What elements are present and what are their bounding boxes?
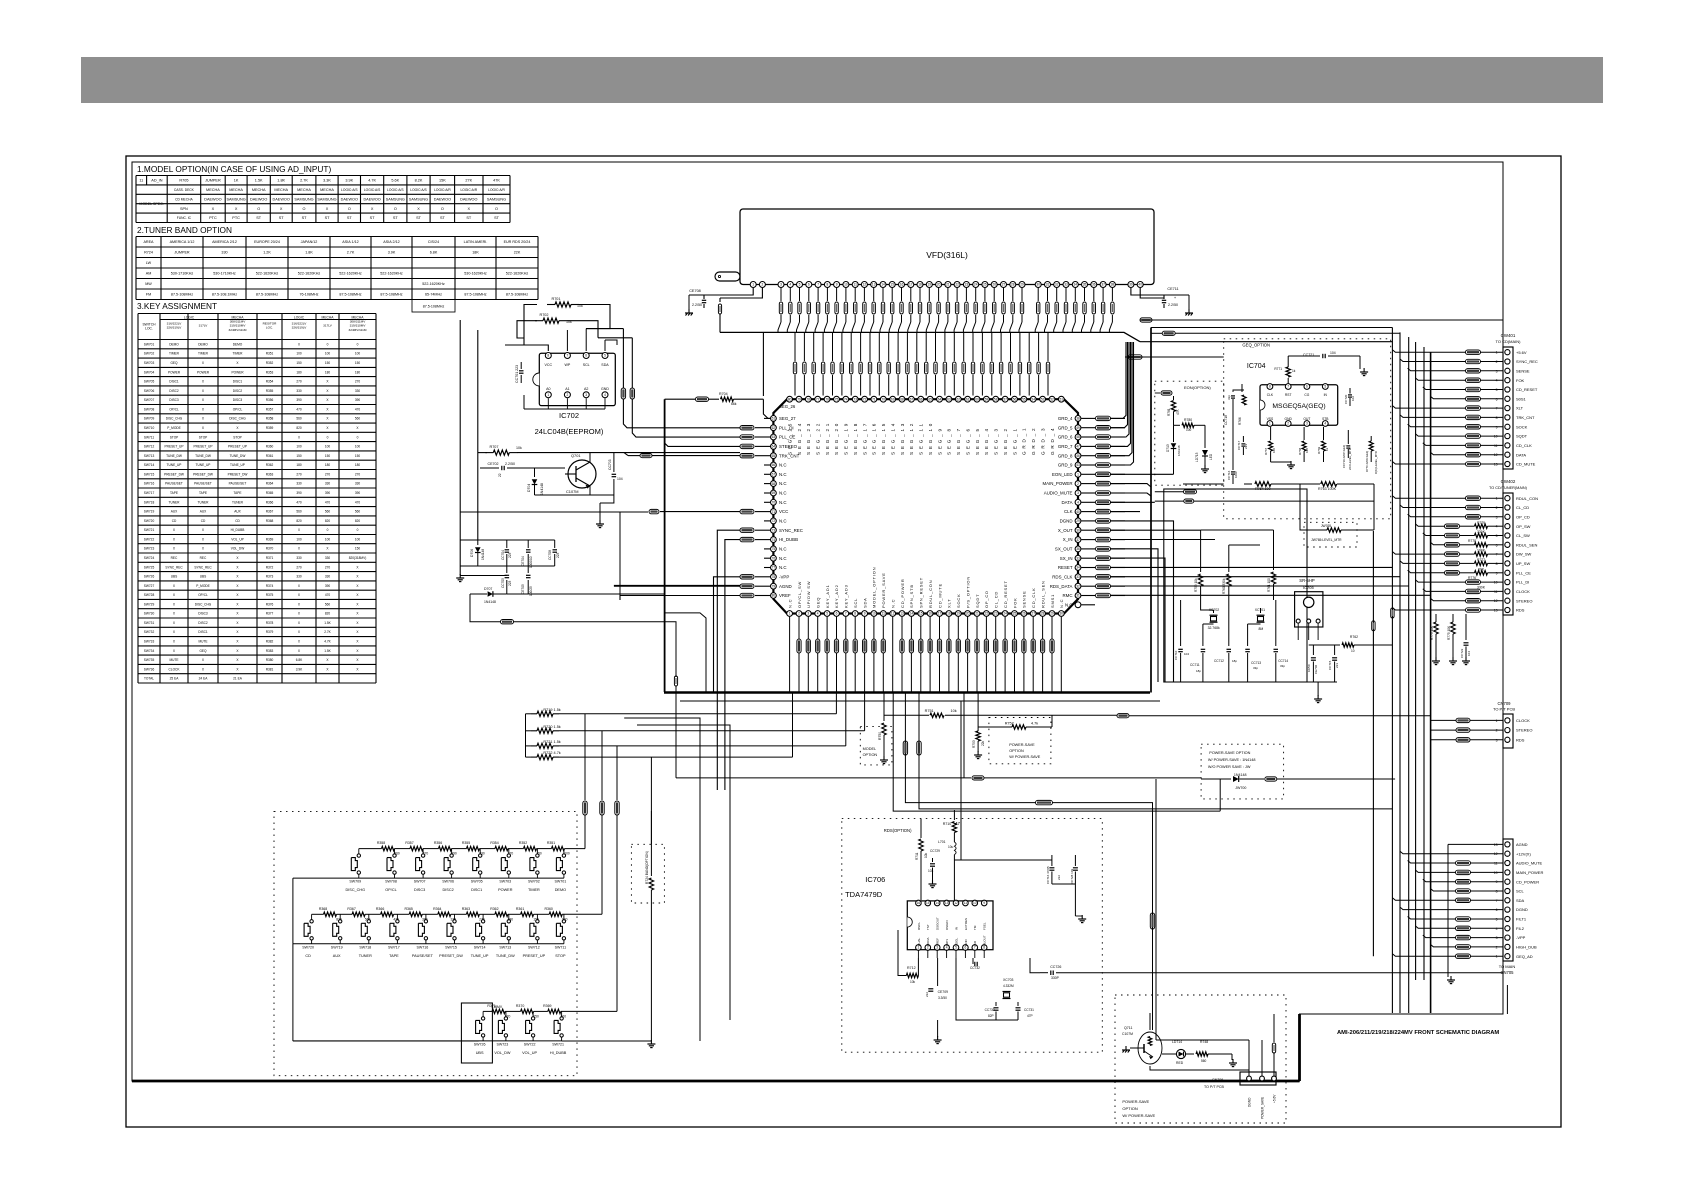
svg-text:14: 14 [935,901,939,905]
svg-text:47: 47 [1076,445,1080,449]
svg-text:FIL2: FIL2 [1516,926,1525,931]
bottom line oscillator box [1174,681,1338,683]
svg-text:VCC: VCC [545,363,553,367]
IC706 bottom pins 1-8 [916,945,922,951]
svg-text:1k: 1k [1325,447,1329,451]
svg-text:SW721: SW721 [144,528,155,532]
svg-text:17: 17 [938,612,942,616]
svg-text:SW716: SW716 [144,482,155,486]
svg-text:4: 4 [1324,422,1326,426]
svg-text:CC722: CC722 [1460,648,1464,658]
svg-text:330: 330 [479,852,485,856]
row B left connect [292,944,294,1041]
capacitor CE705 100/25 [527,566,529,573]
svg-text:18: 18 [947,612,951,616]
ground CC729 [932,880,934,884]
svg-text:SEG_20: SEG_20 [834,421,839,455]
svg-text:1.MODEL OPTION(IN CASE OF USIN: 1.MODEL OPTION(IN CASE OF USING AD_INPUT… [137,164,331,174]
svg-text:PAUSE/SET: PAUSE/SET [412,954,434,958]
svg-text:TUNE_UP: TUNE_UP [471,954,489,958]
svg-text:ST: ST [440,216,446,220]
svg-text:40: 40 [1138,283,1142,287]
svg-text:3.9K: 3.9K [388,251,396,255]
EON tag [1161,391,1172,395]
svg-text:SEG_5: SEG_5 [975,426,980,455]
svg-text:25: 25 [1013,612,1017,616]
svg-text:SW735: SW735 [144,658,155,662]
vertical from bus to R704 line [762,332,764,396]
svg-text:8: 8 [827,283,829,287]
svg-text:SW709: SW709 [144,417,155,421]
svg-text:390: 390 [451,852,457,856]
svg-text:77: 77 [772,566,776,570]
svg-text:REC: REC [171,556,178,560]
svg-text:SW712: SW712 [144,445,155,449]
svg-text:390: 390 [355,398,361,402]
GEQ_OPTION dashed box [1224,339,1391,519]
IC701 right pins [1075,416,1081,422]
svg-text:180: 180 [296,463,302,467]
svg-text:67: 67 [910,397,914,401]
CW402 tags wires resistors [1466,496,1481,500]
svg-text:104: 104 [1184,652,1189,656]
svg-text:POWER-SAVE: POWER-SAVE [1122,1099,1149,1104]
svg-text:65: 65 [928,397,932,401]
svg-text:OP/CL: OP/CL [169,407,179,411]
svg-text:R381: R381 [266,667,274,671]
svg-text:CG: CG [1304,393,1309,397]
switch SW702 TIMER [536,854,539,857]
svg-text:AUX: AUX [234,510,241,514]
svg-text:78: 78 [807,397,811,401]
svg-text:35: 35 [1083,283,1087,287]
svg-text:UP/DW SW: UP/DW SW [806,581,811,608]
svg-text:326/319LV: 326/319LV [167,326,183,330]
svg-text:TUNE_DW: TUNE_DW [166,454,182,458]
svg-text:POWER-SAVE OPTION: POWER-SAVE OPTION [1209,751,1250,755]
svg-text:SAMSUNG: SAMSUNG [487,197,506,201]
resistor R781 47K [1173,396,1175,400]
svg-text:30: 30 [1036,283,1040,287]
svg-text:100: 100 [1186,428,1192,432]
svg-text:-VPP: -VPP [1516,935,1526,940]
svg-text:R761 100: R761 100 [1267,578,1271,592]
svg-text:TUNER: TUNER [232,500,244,504]
svg-text:SW710: SW710 [144,426,155,430]
svg-text:R373: R373 [266,575,274,579]
GEQ output long vertical [1372,531,1374,956]
svg-text:180: 180 [325,370,331,374]
svg-text:SOCK: SOCK [956,593,961,608]
svg-text:R351: R351 [547,841,555,845]
svg-text:R356: R356 [266,398,274,402]
svg-text:8M: 8M [1259,627,1264,631]
svg-text:EUROPE 20/24: EUROPE 20/24 [254,240,280,244]
svg-text:4: 4 [1077,501,1079,505]
svg-text:VREF: VREF [936,938,940,946]
svg-text:SW701: SW701 [144,342,155,346]
svg-text:ST: ST [302,216,308,220]
svg-text:D706: D706 [470,549,474,557]
svg-text:SX_IN: SX_IN [1060,556,1073,561]
svg-text:8: 8 [1269,385,1271,389]
resistor R707 10k [485,452,493,454]
resistor R355 330 [467,846,480,850]
svg-text:SEG_3: SEG_3 [994,426,999,455]
lower filter cluster wires [460,539,555,541]
svg-text:530-1620KHz: 530-1620KHz [464,272,487,276]
CN705 tags and wires [1448,843,1503,845]
switch SW720 CD [310,920,313,923]
svg-text:SW726: SW726 [474,1042,486,1046]
svg-text:MECHA: MECHA [274,188,288,192]
svg-text:R364: R364 [433,907,441,911]
svg-text:74: 74 [844,397,848,401]
svg-text:SCL: SCL [853,598,858,608]
svg-text:X_IN: X_IN [1063,537,1073,542]
IC705 body [1295,592,1323,627]
svg-text:FUNC. IC: FUNC. IC [177,216,192,220]
resistor R363 270 [466,912,479,916]
svg-text:R771: R771 [1274,367,1282,371]
svg-text:OP/CL: OP/CL [233,407,243,411]
VFD grid resistor array row 1 [780,288,782,302]
svg-text:TAPE: TAPE [233,491,241,495]
svg-text:150: 150 [536,852,542,856]
svg-text:36: 36 [1092,283,1096,287]
svg-text:GEQ_OPTION: GEQ_OPTION [1242,343,1270,348]
svg-text:PRESET_UP: PRESET_UP [228,445,247,449]
svg-text:1.5K: 1.5K [324,621,331,625]
svg-text:XC703: XC703 [1003,978,1013,982]
svg-text:SAMSUNG: SAMSUNG [386,197,405,201]
svg-text:LOGIC:A/R: LOGIC:A/R [460,188,477,192]
svg-text:POWER: POWER [498,888,513,892]
svg-text:69: 69 [772,491,776,495]
svg-text:POWER-SAVE: POWER-SAVE [1009,743,1035,747]
switch SW726 UBS [481,1017,484,1020]
svg-text:100: 100 [325,537,331,541]
svg-text:40: 40 [1076,510,1080,514]
svg-text:24 EA: 24 EA [199,677,209,681]
svg-text:317LV: 317LV [323,324,333,328]
svg-text:A0: A0 [546,387,550,391]
svg-text:CD_POWER: CD_POWER [1516,879,1539,884]
svg-text:SW716: SW716 [417,945,429,949]
wire with tag to bus [470,594,501,622]
svg-text:SW702: SW702 [528,880,540,884]
svg-text:CD: CD [172,519,177,523]
svg-text:SEG_21: SEG_21 [825,421,830,455]
svg-text:R767: R767 [1264,447,1268,455]
VFD pins 3-29 [778,282,784,288]
capacitor CC713 33p [1247,624,1249,646]
svg-text:62: 62 [957,397,961,401]
svg-text:RMC: RMC [1063,593,1073,598]
svg-text:X: X [417,207,420,211]
svg-text:6: 6 [585,354,587,358]
svg-text:1N4148: 1N4148 [1177,445,1181,456]
wire R704 to SEG_27 pin [763,399,770,418]
svg-text:SW720: SW720 [144,519,155,523]
svg-text:DISC1: DISC1 [471,888,482,892]
svg-text:47K: 47K [1176,408,1180,415]
svg-text:SW709: SW709 [349,880,361,884]
svg-text:ST: ST [466,216,472,220]
svg-text:AMERICA 1/12: AMERICA 1/12 [170,240,195,244]
diode D704 1N4148 [534,468,536,477]
svg-text:560: 560 [355,417,361,421]
svg-text:MECHA: MECHA [322,315,335,319]
wires -VPP AGND VREF [714,577,741,692]
svg-text:74: 74 [772,538,776,542]
svg-text:Q701: Q701 [571,453,581,458]
EEPROM IC702 body [539,353,615,405]
svg-text:CC730: CC730 [985,1008,995,1012]
svg-text:SW707: SW707 [144,398,155,402]
svg-text:16: 16 [900,283,904,287]
switch SW717 TAPE [396,920,399,923]
svg-text:FSEL: FSEL [983,922,987,930]
svg-text:38: 38 [1076,417,1080,421]
svg-text:R701: R701 [551,297,560,301]
tag on anode bus [1162,331,1175,335]
svg-text:PAUSE/SET: PAUSE/SET [194,482,212,486]
svg-text:12: 12 [863,283,867,287]
svg-text:SW713: SW713 [499,945,511,949]
wires around R701/R702 [524,305,548,352]
svg-text:SQDT: SQDT [1516,434,1528,439]
svg-text:66: 66 [772,463,776,467]
svg-text:SW732: SW732 [144,630,155,634]
svg-text:PRESET_UP: PRESET_UP [194,445,213,449]
svg-text:PTC: PTC [209,216,217,220]
wire trunk to Q711 [1152,1013,1154,1030]
net tag right of CE711 [1140,319,1503,321]
svg-text:R351: R351 [266,352,274,356]
svg-text:CE709: CE709 [938,990,948,994]
svg-text:330: 330 [296,575,302,579]
svg-text:R361: R361 [266,454,274,458]
ground CC721 [1359,356,1361,369]
svg-text:10k: 10k [516,446,522,450]
svg-text:N.C: N.C [779,472,787,477]
svg-text:DISC3: DISC3 [169,398,179,402]
svg-text:324MV/111M: 324MV/111M [349,328,367,332]
svg-text:21: 21 [946,283,950,287]
svg-text:390: 390 [296,491,302,495]
svg-text:CD: CD [201,519,206,523]
IC701 right pin wires and net tags [1081,417,1095,419]
svg-text:324MV/111M: 324MV/111M [229,328,247,332]
svg-text:222: 222 [1057,875,1061,880]
svg-text:MECHA: MECHA [229,188,243,192]
svg-text:100P: 100P [1234,471,1238,478]
svg-text:SW734: SW734 [144,649,155,653]
svg-text:SW711: SW711 [144,435,154,439]
svg-text:CLOCK: CLOCK [1516,718,1530,723]
svg-text:RED: RED [1176,1061,1184,1065]
svg-text:R773 10K: R773 10K [1430,625,1434,640]
ground CN705 [1447,844,1449,977]
svg-text:LOGIC:A/S: LOGIC:A/S [341,188,358,192]
VFD left tab [715,272,740,281]
IC702 bottom pins [545,392,551,398]
capacitor CC715 223 [1334,645,1336,655]
svg-text:51: 51 [1060,397,1064,401]
svg-text:VOL_UP: VOL_UP [231,537,244,541]
svg-text:CC713: CC713 [1251,661,1261,665]
svg-text:2.TUNER BAND OPTION: 2.TUNER BAND OPTION [137,225,232,235]
resistor R702 10k [535,320,543,322]
svg-text:72: 72 [772,519,776,523]
svg-text:R374: R374 [266,584,274,588]
svg-text:R376: R376 [266,602,274,606]
svg-text:O: O [495,207,498,211]
svg-text:R354: R354 [266,380,274,384]
IC702 top pins [545,353,551,359]
svg-text:QUAL: QUAL [917,937,921,946]
svg-text:R361: R361 [516,907,524,911]
svg-text:9: 9 [864,612,866,616]
svg-text:TO P/T PCB: TO P/T PCB [1204,1085,1224,1089]
svg-text:CC729: CC729 [930,849,940,853]
svg-text:78: 78 [772,575,776,579]
svg-text:14: 14 [910,612,914,616]
svg-text:R380: R380 [266,658,274,662]
switch SW712 PRESET_UP [536,920,539,923]
svg-text:D707: D707 [484,587,492,591]
capacitor CC703 104 [613,453,615,472]
resistor R354 270 [495,846,508,850]
wire VCC [660,511,740,513]
main trunk vertical x1151 [1150,328,1152,693]
svg-text:0: 0 [298,528,300,532]
svg-text:46: 46 [1076,454,1080,458]
svg-text:10: 10 [1351,649,1355,653]
svg-text:ST: ST [494,216,500,220]
svg-text:ASIA 1/12: ASIA 1/12 [342,240,358,244]
svg-text:22: 22 [985,612,989,616]
svg-text:560: 560 [355,510,361,514]
svg-text:R366: R366 [266,500,274,504]
svg-text:ST: ST [416,216,422,220]
svg-text:TAPE: TAPE [199,491,207,495]
svg-text:SENSE: SENSE [1022,590,1027,608]
svg-text:SW719: SW719 [331,945,343,949]
svg-text:7: 7 [567,354,569,358]
svg-text:10: 10 [844,283,848,287]
svg-text:330P: 330P [1051,976,1060,980]
svg-text:1.5K: 1.5K [324,649,331,653]
svg-text:N.C: N.C [779,556,787,561]
svg-text:GRD_5: GRD_5 [1058,425,1073,430]
IC704 bottom pins [1267,421,1273,427]
svg-text:TUNER: TUNER [359,954,372,958]
svg-text:DISC_CHG: DISC_CHG [229,417,246,421]
svg-text:CC726: CC726 [1050,965,1061,969]
svg-text:R365: R365 [266,491,274,495]
svg-text:R363: R363 [266,472,274,476]
svg-text:SW725: SW725 [144,565,155,569]
svg-text:TDA7479D: TDA7479D [845,890,883,899]
svg-text:4.7k: 4.7k [1031,722,1038,726]
svg-text:STOP: STOP [170,435,179,439]
svg-text:REC: REC [200,556,207,560]
svg-text:SAMSUNG: SAMSUNG [294,197,313,201]
svg-text:RST: RST [1285,393,1292,397]
svg-text:1.2K: 1.2K [263,251,271,255]
capacitor CC712 18p [1228,600,1230,646]
svg-text:TOTAL: TOTAL [144,677,154,681]
svg-text:R712: R712 [907,966,916,970]
Q711 wires [1149,1013,1151,1030]
svg-text:CC710: CC710 [1174,650,1178,660]
anode bus wire [720,332,1140,341]
svg-text:70: 70 [772,501,776,505]
svg-text:R367: R367 [347,907,355,911]
svg-text:EXTRES: EXTRES [964,918,968,930]
svg-text:CE711: CE711 [1167,287,1178,291]
svg-text:70: 70 [882,397,886,401]
svg-text:326/319LV: 326/319LV [292,326,308,330]
svg-text:390: 390 [355,491,361,495]
svg-text:IC702: IC702 [559,411,579,420]
svg-text:CD MECHA: CD MECHA [175,197,193,201]
svg-text:R353: R353 [266,370,274,374]
main horizontal bus thick [664,691,1150,693]
svg-text:33: 33 [1064,283,1068,287]
svg-text:GND: GND [964,939,968,947]
svg-text:R781: R781 [1167,408,1171,416]
switch SW713 TUNE_DW [507,920,510,923]
svg-text:STB: STB [1322,417,1329,421]
svg-text:CC731: CC731 [1024,1008,1034,1012]
svg-text:DEMO: DEMO [198,342,208,346]
svg-text:SW715: SW715 [445,945,457,949]
svg-text:N.C: N.C [779,519,787,524]
svg-text:0: 0 [357,435,359,439]
resistor R357 470 [410,846,423,850]
svg-text:JW700: JW700 [1235,786,1246,790]
wire CN705 pin1 to frame [1506,985,1508,1014]
svg-text:DISC1: DISC1 [169,380,179,384]
svg-text:100: 100 [325,352,331,356]
svg-text:DAEWOO: DAEWOO [273,197,290,201]
second bus line [680,700,1160,702]
svg-text:DISC1: DISC1 [233,380,243,384]
svg-text:0: 0 [298,435,300,439]
IC706 top pins 16-9 [916,900,922,906]
svg-text:PRESET_DW: PRESET_DW [164,472,184,476]
svg-text:3.3/50: 3.3/50 [938,996,947,1000]
svg-text:SEG_11: SEG_11 [919,421,924,455]
svg-text:SEG_17: SEG_17 [862,421,867,455]
svg-text:PAUSE/SET: PAUSE/SET [165,482,183,486]
svg-text:390: 390 [296,398,302,402]
svg-text:R357: R357 [405,841,413,845]
svg-text:LOGIC:A/S: LOGIC:A/S [387,188,404,192]
svg-text:LOC.: LOC. [266,326,273,330]
svg-text:22: 22 [955,283,959,287]
svg-text:FILT1: FILT1 [1516,917,1527,922]
svg-text:+5.6V: +5.6V [1273,1094,1277,1103]
svg-text:LOC.: LOC. [145,327,153,331]
svg-text:CE706: CE706 [1314,664,1318,674]
resistor R370 150 [521,1009,534,1013]
svg-text:SW703: SW703 [499,880,511,884]
svg-text:STOP: STOP [199,435,208,439]
